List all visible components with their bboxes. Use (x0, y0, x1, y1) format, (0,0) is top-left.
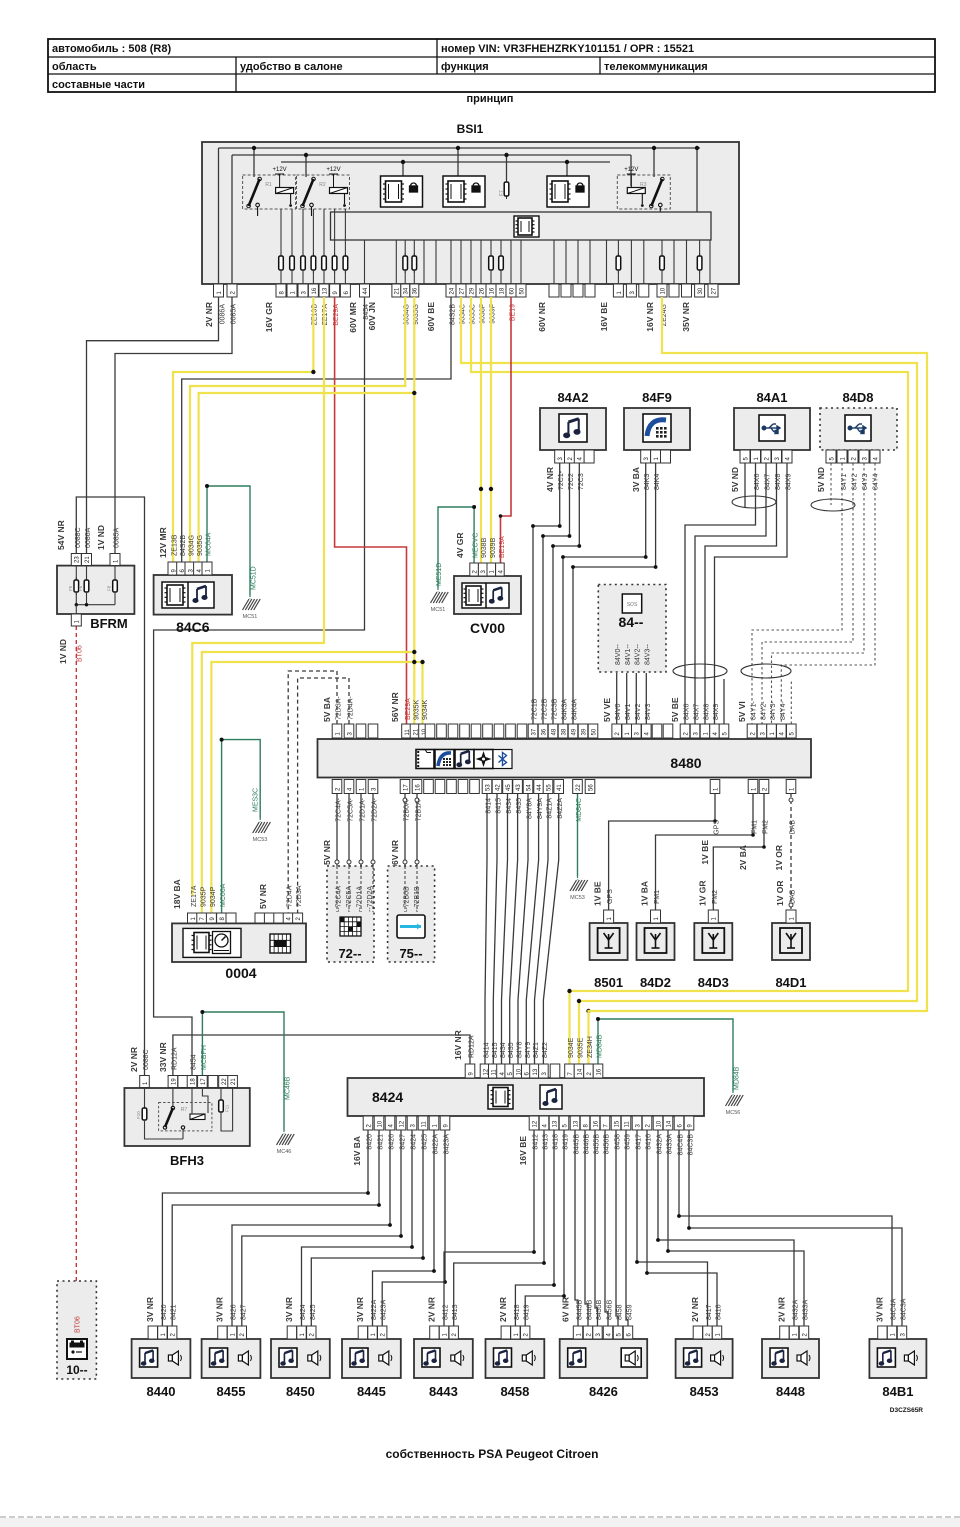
svg-text:8427: 8427 (240, 1304, 247, 1320)
svg-text:55: 55 (546, 784, 552, 791)
svg-text:84A2: 84A2 (557, 390, 588, 405)
ground MC56 (732, 1091, 734, 1095)
svg-text:8424: 8424 (300, 1304, 307, 1320)
svg-text:13: 13 (552, 1120, 558, 1127)
wire ZE24G yellow BSI right side to 8424 (589, 297, 928, 1064)
svg-text:53: 53 (485, 784, 491, 791)
antenna 84D2 (637, 881, 675, 990)
svg-text:8455B: 8455B (596, 1299, 603, 1320)
svg-text:--72D1A: --72D1A (357, 886, 364, 912)
svg-text:72B1A-: 72B1A- (416, 797, 423, 821)
svg-text:41: 41 (557, 784, 563, 791)
BFRM pin bottom (71, 614, 81, 626)
svg-text:43: 43 (516, 784, 522, 791)
svg-text:29: 29 (469, 287, 475, 294)
svg-text:8456B: 8456B (607, 1299, 614, 1320)
svg-text:CV00: CV00 (470, 620, 505, 636)
wires 8424 to speaker 8426 (575, 1130, 578, 1326)
svg-text:84V2: 84V2 (635, 704, 642, 720)
svg-text:84X6: 84X6 (754, 474, 761, 490)
svg-text:8433A: 8433A (803, 1299, 810, 1320)
svg-text:1V GR: 1V GR (697, 880, 707, 906)
svg-text:5V ND: 5V ND (816, 467, 826, 492)
svg-text:5V BE: 5V BE (670, 697, 680, 722)
wires 84X6-84X9 84A1 to 8480 (744, 463, 746, 507)
wires 8424 to speaker 8443 (444, 1130, 534, 1326)
svg-text:+12V: +12V (273, 167, 287, 173)
svg-text:BT06: BT06 (75, 1316, 82, 1333)
svg-text:составные части: составные части (52, 79, 145, 91)
svg-text:телекоммуникация: телекоммуникация (604, 61, 708, 73)
BSI1 pin 60V MR (360, 284, 370, 297)
svg-text:84Y8A: 84Y8A (527, 798, 534, 819)
svg-text:72--: 72-- (338, 946, 361, 961)
svg-text:5V ND: 5V ND (730, 467, 740, 492)
svg-text:0085A: 0085A (114, 527, 121, 548)
wire FM2 8480 to 84D3 (713, 793, 764, 910)
svg-text:21: 21 (231, 1078, 237, 1085)
svg-text:8421: 8421 (171, 1304, 178, 1320)
wire 9039F yellow BSI to CV00 (490, 297, 492, 563)
svg-text:1V OR: 1V OR (774, 845, 784, 871)
svg-text:удобство в салоне: удобство в салоне (240, 61, 343, 73)
svg-text:42: 42 (495, 784, 501, 791)
svg-text:1V ND: 1V ND (58, 639, 68, 664)
BSI1 box (202, 142, 739, 284)
wire 84S2B BSI to 84C6 (182, 297, 451, 562)
svg-text:8425: 8425 (310, 1304, 317, 1320)
svg-text:SOS: SOS (627, 602, 638, 608)
wire bus right drop (696, 148, 698, 212)
speaker 8445 (342, 1297, 401, 1399)
svg-text:36: 36 (541, 728, 547, 735)
svg-text:14: 14 (666, 1120, 672, 1127)
svg-text:10: 10 (656, 1120, 662, 1127)
svg-text:8454: 8454 (191, 1054, 198, 1070)
wire to relay R3 (653, 148, 655, 177)
header table (48, 39, 935, 92)
svg-text:MD84C: MD84C (576, 798, 583, 822)
svg-text:27: 27 (459, 287, 465, 294)
svg-text:56V NR: 56V NR (390, 692, 400, 722)
svg-text:16: 16 (593, 1120, 599, 1127)
wires 84Y1-84Y4 84D8 to 8480 dashed (830, 463, 832, 505)
svg-text:54: 54 (526, 784, 532, 791)
svg-text:функция: функция (441, 61, 489, 73)
svg-text:3V NR: 3V NR (875, 1297, 885, 1322)
wire 0086A BSI to BFRM (87, 297, 219, 554)
svg-text:8445: 8445 (357, 1384, 386, 1399)
IC U3 (547, 176, 589, 207)
wire GPS 8480 to 8501 (609, 793, 715, 910)
svg-text:5V BA: 5V BA (322, 697, 332, 722)
svg-text:8415: 8415 (492, 1042, 499, 1058)
svg-text:84X8: 84X8 (775, 474, 782, 490)
wire 72C2 84A2 to 8480 (543, 463, 570, 724)
svg-text:F7: F7 (499, 190, 505, 196)
antenna 84D3 (694, 880, 732, 990)
8424 bottom pins (363, 1116, 694, 1130)
svg-text:4V GR: 4V GR (455, 532, 465, 558)
8424 box (348, 1078, 705, 1116)
svg-text:ZE17A: ZE17A (191, 885, 198, 907)
svg-text:84Z1: 84Z1 (533, 1042, 540, 1058)
svg-text:84Z1A: 84Z1A (547, 798, 554, 819)
svg-text:15: 15 (614, 1120, 620, 1127)
svg-text:8440: 8440 (147, 1384, 176, 1399)
svg-text:60V MR: 60V MR (348, 302, 358, 333)
BFRM box (57, 566, 134, 614)
0004 labels (172, 788, 303, 909)
BSI1 pins 35V NR (682, 284, 719, 297)
wires 8424 to speaker 8448 (658, 1130, 794, 1326)
speaker 8450 (271, 1297, 330, 1399)
wire MECVC green CV00 to ground ME51 (438, 507, 474, 588)
84F9 box (624, 408, 690, 450)
svg-text:72D1A-: 72D1A- (360, 797, 367, 821)
BFRM labels (56, 520, 121, 664)
svg-text:39: 39 (581, 728, 587, 735)
shield ellipse 84D8 top (811, 499, 855, 511)
wire 0085A BSI to BFRM (115, 297, 232, 554)
shield ellipse 84A1 top (732, 496, 776, 508)
svg-text:84X9: 84X9 (713, 704, 720, 720)
svg-text:9035E: 9035E (578, 1037, 585, 1058)
svg-text:22: 22 (222, 1078, 228, 1085)
BFH3 labels (129, 1042, 292, 1100)
svg-text:3V NR: 3V NR (284, 1297, 294, 1322)
svg-text:11: 11 (421, 1121, 427, 1128)
svg-text:84X8: 84X8 (704, 704, 711, 720)
relay R1 (243, 167, 296, 216)
84A1 labels (730, 467, 793, 492)
svg-text:BFRM: BFRM (90, 616, 128, 631)
wires 8424 to speaker 84B1 (679, 1130, 892, 1326)
svg-text:FM2: FM2 (712, 890, 719, 904)
wire ZE17A yellow BSI to 0004 (192, 297, 324, 896)
wire 0088C BFRM to BFH3 (76, 497, 144, 1076)
84A2 labels (545, 467, 585, 492)
svg-text:0004: 0004 (225, 965, 256, 981)
svg-text:R1: R1 (265, 182, 272, 188)
svg-text:8443: 8443 (429, 1384, 458, 1399)
svg-text:9034E: 9034E (568, 1037, 575, 1058)
svg-text:MC46B: MC46B (285, 1076, 292, 1100)
svg-text:8434: 8434 (506, 798, 513, 814)
svg-text:принцип: принцип (467, 93, 514, 105)
svg-text:60: 60 (509, 287, 515, 294)
8424 bottom labels (352, 1134, 695, 1166)
svg-text:3V NR: 3V NR (145, 1297, 155, 1322)
svg-text:10: 10 (660, 287, 666, 294)
svg-text:60V JN: 60V JN (367, 302, 377, 330)
svg-text:3V NR: 3V NR (215, 1297, 225, 1322)
svg-text:5V NR: 5V NR (258, 884, 268, 909)
shield ellipse 5V VI (741, 664, 791, 678)
svg-text:72D3A-: 72D3A- (336, 696, 343, 720)
wire pin2 up (231, 155, 233, 284)
svg-text:3V NR: 3V NR (355, 1297, 365, 1322)
84C6 labels (158, 527, 258, 590)
svg-text:GPS: GPS (714, 820, 721, 835)
svg-text:54V NR: 54V NR (56, 520, 66, 550)
svg-text:8424: 8424 (372, 1089, 403, 1105)
wire to relay R2 (305, 155, 307, 177)
svg-text:DAB: DAB (790, 820, 797, 835)
svg-text:8445B: 8445B (577, 1299, 584, 1320)
svg-text:18V BA: 18V BA (172, 879, 182, 909)
svg-text:50: 50 (591, 728, 597, 735)
svg-text:1V OR: 1V OR (775, 880, 785, 906)
BFH3 pins (140, 1076, 238, 1088)
svg-text:MC64A: MC64A (206, 532, 213, 556)
svg-text:84Z2: 84Z2 (542, 1042, 549, 1058)
IC U2 (443, 176, 485, 207)
speaker 8448 (762, 1297, 819, 1399)
svg-text:84D8: 84D8 (842, 390, 873, 405)
svg-text:9035G: 9035G (197, 535, 204, 556)
svg-text:84Z2A: 84Z2A (557, 798, 564, 819)
svg-text:8416: 8416 (716, 1304, 723, 1320)
svg-text:84Y2: 84Y2 (852, 474, 859, 490)
wire 9034P yellow to 0004 and 9034K to 8480 (211, 662, 414, 913)
svg-text:48: 48 (551, 728, 557, 735)
84F9 pins (641, 450, 671, 463)
svg-text:8412: 8412 (443, 1304, 450, 1320)
84-- box dashed (598, 585, 666, 673)
svg-text:5V NR: 5V NR (322, 840, 332, 865)
wire to fuse F7 (506, 155, 508, 180)
svg-text:16V BA: 16V BA (352, 1136, 362, 1166)
svg-text:8458: 8458 (617, 1304, 624, 1320)
75-- labels (404, 886, 422, 912)
svg-text:ZE34H: ZE34H (587, 1036, 594, 1058)
svg-text:BT06: BT06 (77, 645, 84, 662)
speaker 8443 (414, 1297, 473, 1399)
fuse F7 (506, 179, 508, 199)
svg-text:16V NR: 16V NR (453, 1030, 463, 1060)
svg-text:30: 30 (698, 287, 704, 294)
72-- internal dashed wires (336, 866, 338, 912)
svg-text:FM2: FM2 (763, 820, 770, 834)
svg-text:84V3--: 84V3-- (645, 643, 652, 665)
svg-text:8448: 8448 (776, 1384, 805, 1399)
wires 8424 to speaker 8455 (232, 1130, 390, 1326)
BSI1 fuse row and pin feeders (279, 209, 710, 284)
svg-text:72D3A: 72D3A (296, 885, 303, 907)
svg-text:RD12A: RD12A (469, 1035, 476, 1058)
72-- labels (336, 886, 375, 912)
svg-text:36: 36 (413, 287, 419, 294)
svg-text:номер VIN: VR3FHEHZRKY101151 /: номер VIN: VR3FHEHZRKY101151 / OPR : 155… (441, 43, 694, 55)
svg-text:область: область (52, 61, 97, 73)
wire to IC U3 (566, 162, 568, 176)
svg-text:84K3A: 84K3A (562, 699, 569, 720)
8480 bottom labels (322, 797, 797, 870)
svg-text:84S2B: 84S2B (180, 535, 187, 556)
svg-text:16V GR: 16V GR (264, 302, 274, 332)
ground MC51 (249, 595, 251, 599)
svg-text:44: 44 (537, 784, 543, 791)
relay R2 (297, 167, 350, 216)
svg-text:84K3: 84K3 (644, 474, 651, 490)
svg-text:22: 22 (576, 784, 582, 791)
svg-text:9035K: 9035K (414, 699, 421, 720)
wire 84K3 84F9 to 8480 (563, 463, 646, 724)
wire MC06A green 0004 to ground MC53 (222, 740, 261, 913)
BSI1 internal wire H1 (219, 147, 701, 149)
svg-text:84V2--: 84V2-- (635, 643, 642, 665)
wire BE29A red BSI to 8480 (335, 297, 407, 724)
svg-text:2V NR: 2V NR (690, 1297, 700, 1322)
BFRM internal fuses (68, 566, 117, 614)
svg-text:84C3A: 84C3A (901, 1298, 908, 1320)
svg-text:2V NR: 2V NR (427, 1297, 437, 1322)
svg-text:12: 12 (399, 1120, 405, 1127)
battery 10-- box dashed (57, 1281, 96, 1379)
svg-text:72C1B: 72C1B (532, 698, 539, 720)
wire to IC U1 (402, 162, 404, 176)
svg-text:2V NR: 2V NR (777, 1297, 787, 1322)
svg-text:2V NR: 2V NR (498, 1297, 508, 1322)
ground MC53b (577, 876, 579, 880)
svg-text:84V3: 84V3 (645, 704, 652, 720)
svg-text:84X7: 84X7 (694, 704, 701, 720)
svg-text:MECVC: MECVC (473, 533, 480, 558)
svg-text:21: 21 (395, 287, 401, 294)
84A1 box (734, 408, 810, 450)
84D8 box dashed (820, 408, 897, 450)
svg-text:MES3C: MES3C (253, 788, 260, 812)
svg-text:9039B: 9039B (490, 537, 497, 558)
svg-text:16: 16 (312, 287, 318, 294)
BFH3 fuse F11 (220, 1088, 222, 1101)
svg-text:9038B: 9038B (481, 537, 488, 558)
svg-text:8418: 8418 (514, 1304, 521, 1320)
BFH3 box (124, 1088, 249, 1146)
72-- box dashed (327, 866, 374, 962)
svg-text:12V MR: 12V MR (158, 527, 168, 558)
wire BE19 red BSI to CV00 (501, 297, 512, 563)
svg-text:8414: 8414 (486, 798, 493, 814)
BSI1 internal bus bar (331, 212, 712, 240)
CV00 labels (436, 532, 506, 586)
84C6 pins (168, 562, 212, 575)
svg-text:72B0A-: 72B0A- (404, 797, 411, 821)
svg-text:MD84B: MD84B (597, 1034, 604, 1058)
svg-text:8435: 8435 (516, 798, 523, 814)
wire BT96 red dashed BFRM to battery 10-- (75, 626, 77, 1283)
svg-text:84D2: 84D2 (640, 975, 671, 990)
antenna 84D1 (772, 880, 810, 990)
84D8 labels (816, 467, 880, 492)
wires 8424 to speaker 8445 (373, 1130, 435, 1326)
svg-text:84B1: 84B1 (882, 1384, 913, 1399)
wire to relay R1 (253, 148, 255, 177)
svg-text:9034K: 9034K (422, 699, 429, 720)
svg-text:GPS: GPS (607, 889, 614, 904)
84C6 box (154, 575, 232, 615)
svg-text:ZE13B: ZE13B (172, 534, 179, 556)
svg-text:5V VI: 5V VI (737, 701, 747, 722)
wire 9035G yellow BSI to 84C6 and 8480 (413, 297, 415, 724)
wire pin1 up (218, 148, 220, 284)
8424 top labels (453, 1030, 741, 1090)
svg-text:49: 49 (571, 728, 577, 735)
svg-text:84X9: 84X9 (786, 474, 793, 490)
svg-text:1V ND: 1V ND (96, 525, 106, 550)
wires 8424 to speaker 8450 (302, 1130, 413, 1326)
speaker 8455 (202, 1297, 261, 1399)
svg-text:10--: 10-- (66, 1363, 87, 1377)
svg-text:26: 26 (479, 287, 485, 294)
svg-text:84X7: 84X7 (765, 474, 772, 490)
wire MD84C green 8480 to ground MC53b (577, 793, 579, 876)
svg-text:2V BA: 2V BA (738, 845, 748, 870)
BSI1 internal wire H2 (232, 154, 631, 156)
svg-text:16: 16 (489, 287, 495, 294)
relay R3 (617, 167, 670, 216)
wire 72C1 84A2 to 8480 (533, 463, 560, 724)
wire 9034G yellow BSI to 84C6 (190, 297, 405, 562)
BSI1 pin labels (204, 302, 691, 333)
wire ZE13B yellow BSI to 84C6 (312, 297, 314, 372)
75-- internal dashed wires (404, 866, 406, 912)
wire FM1 8480 to 84D2 (656, 793, 754, 910)
svg-text:13: 13 (322, 287, 328, 294)
svg-text:3V BA: 3V BA (631, 467, 641, 492)
svg-text:16V BE: 16V BE (518, 1136, 528, 1166)
BFH3 fuse F10 (144, 1088, 146, 1109)
svg-text:MC53: MC53 (570, 895, 585, 901)
svg-text:72C3: 72C3 (578, 473, 585, 490)
84A1 pins (740, 450, 792, 463)
wire 84K4 84F9 to 8480 (573, 463, 656, 724)
svg-text:84F9: 84F9 (642, 390, 672, 405)
svg-text:BFH3: BFH3 (170, 1153, 204, 1168)
svg-text:84Y9A: 84Y9A (537, 798, 544, 819)
svg-text:4V NR: 4V NR (545, 467, 555, 492)
svg-text:84Y4: 84Y4 (873, 474, 880, 490)
0004 box (172, 923, 306, 962)
svg-text:R2: R2 (319, 182, 326, 188)
svg-text:84A1: 84A1 (756, 390, 787, 405)
svg-text:84Y2-: 84Y2- (761, 701, 768, 720)
svg-text:R7: R7 (181, 1107, 188, 1113)
svg-text:16V BE: 16V BE (599, 302, 609, 332)
svg-text:72D4A-: 72D4A- (348, 696, 355, 720)
wire RD12A BFH3 to 8424 (173, 1035, 470, 1076)
CV00 pins (470, 563, 505, 576)
svg-text:84V1--: 84V1-- (625, 643, 632, 665)
svg-text:8450: 8450 (286, 1384, 315, 1399)
svg-text:8434: 8434 (500, 1042, 507, 1058)
0004 pins (188, 913, 303, 923)
svg-text:+12V: +12V (624, 167, 638, 173)
svg-text:72C4A-: 72C4A- (336, 797, 343, 821)
svg-text:8459: 8459 (627, 1304, 634, 1320)
svg-text:6V NR: 6V NR (561, 1297, 571, 1322)
8480 top labels (322, 692, 787, 722)
84D8 pins (826, 450, 880, 463)
svg-text:MC51D: MC51D (251, 566, 258, 590)
84A2 pins (555, 450, 594, 463)
BSI1 pins 16V GR (276, 284, 350, 297)
svg-text:24: 24 (449, 287, 455, 294)
svg-text:MC51: MC51 (431, 607, 446, 613)
svg-text:84Y3: 84Y3 (862, 474, 869, 490)
svg-text:19: 19 (171, 1078, 177, 1085)
